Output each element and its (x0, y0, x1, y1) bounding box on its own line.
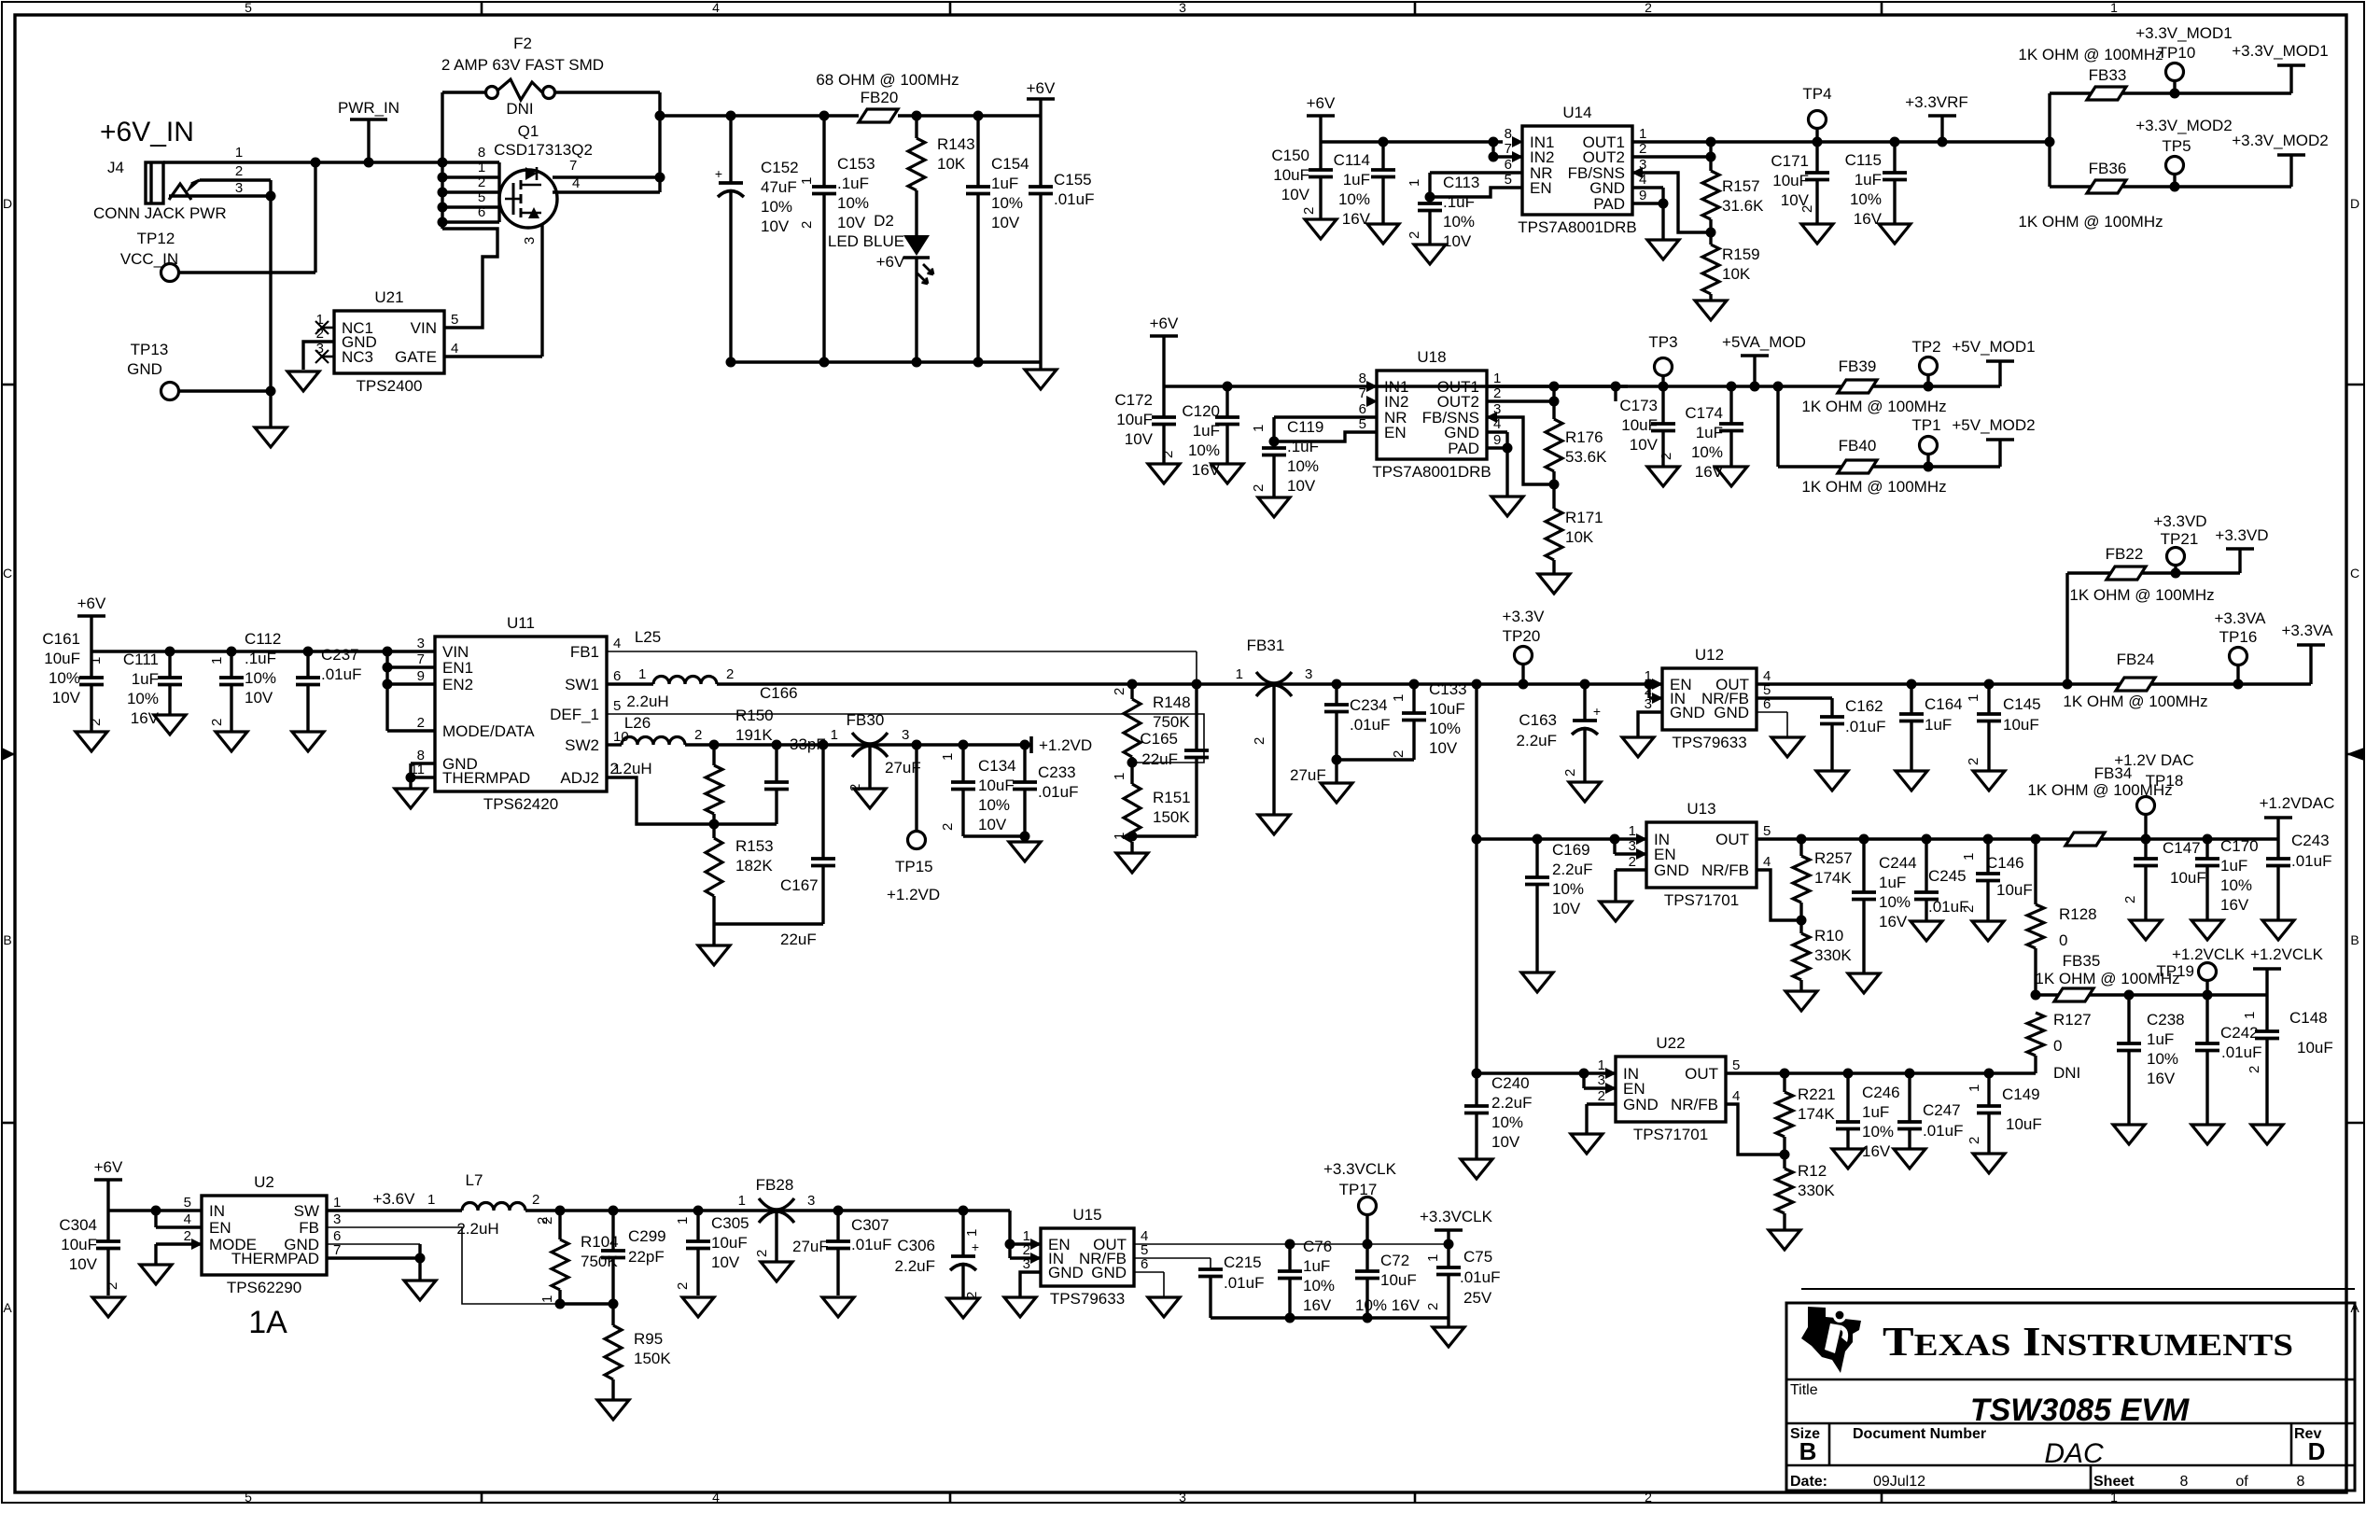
wire +3.3V rail (1274, 682, 1662, 685)
resistor R127 0 DNI (2027, 1013, 2044, 1056)
svg-text:10%: 10% (1491, 1113, 1523, 1131)
wire U12 GND (1638, 712, 1662, 737)
svg-text:2.2uH: 2.2uH (609, 760, 651, 777)
svg-text:C: C (2350, 566, 2359, 581)
svg-text:C111: C111 (123, 651, 159, 668)
wire U18 FB/SNS (1487, 417, 1554, 484)
svg-text:182K: 182K (735, 857, 773, 875)
capacitor C240 2.2uF (1475, 1073, 1477, 1106)
svg-text:SW2: SW2 (565, 736, 599, 754)
capacitor C306 2.2uF (961, 1211, 964, 1256)
svg-text:5: 5 (478, 189, 485, 205)
wire L7 out rail (525, 1209, 1010, 1211)
svg-text:R176: R176 (1565, 428, 1603, 446)
svg-text:1uF: 1uF (1193, 422, 1220, 440)
svg-text:1K OHM @ 100MHz: 1K OHM @ 100MHz (2018, 46, 2163, 63)
capacitor C169 2.2uF (1535, 839, 1538, 877)
svg-text:22uF: 22uF (1141, 750, 1178, 768)
svg-text:FB31: FB31 (1247, 637, 1285, 654)
svg-text:2: 2 (940, 823, 956, 831)
svg-text:27uF: 27uF (1290, 766, 1326, 784)
svg-text:1: 1 (738, 1193, 746, 1209)
svg-text:C148: C148 (2289, 1009, 2328, 1027)
connector J4 (146, 162, 163, 203)
svg-text:1: 1 (539, 1295, 555, 1303)
junction TP12 riser (311, 158, 321, 168)
svg-text:1: 1 (427, 1192, 435, 1208)
svg-text:TP20: TP20 (1503, 627, 1541, 645)
svg-text:33pF: 33pF (790, 735, 826, 753)
svg-text:2: 2 (1629, 854, 1636, 870)
ground U13 (1600, 902, 1631, 921)
ground C162 (1816, 771, 1848, 791)
svg-text:7: 7 (1505, 141, 1512, 157)
svg-text:1uF: 1uF (132, 670, 159, 688)
svg-text:2: 2 (799, 221, 815, 229)
junction TP13 (266, 386, 276, 397)
svg-text:0: 0 (2059, 931, 2067, 949)
power +1.2VD tap (1029, 736, 1033, 753)
wire +6V to U18 (1164, 385, 1628, 387)
resistor R143 10K (915, 116, 917, 138)
svg-text:DNI: DNI (2053, 1064, 2080, 1082)
svg-text:TPS79633: TPS79633 (1672, 734, 1746, 751)
wire U15 GND (1020, 1272, 1041, 1297)
capacitor C215 0.01uF (1198, 1267, 1223, 1271)
svg-text:27uF: 27uF (792, 1238, 829, 1255)
ground C304 (92, 1297, 124, 1317)
svg-text:R128: R128 (2059, 905, 2097, 923)
svg-text:1K OHM @ 100MHz: 1K OHM @ 100MHz (2063, 693, 2207, 710)
ground C120 (1211, 464, 1243, 483)
svg-text:C244: C244 (1879, 854, 1917, 872)
wire U14 FB/SNS (1632, 173, 1711, 232)
svg-text:+6V_IN: +6V_IN (100, 117, 194, 147)
svg-text:C134: C134 (978, 757, 1016, 775)
svg-text:C120: C120 (1182, 402, 1220, 420)
svg-text:5: 5 (245, 1490, 252, 1505)
svg-text:10uF: 10uF (978, 777, 1015, 794)
IC U11 TPS62420 (435, 637, 607, 791)
svg-text:10uF: 10uF (61, 1236, 97, 1253)
wire U14 OUT2 tie (1632, 155, 1711, 158)
svg-text:TP10: TP10 (2158, 44, 2196, 62)
svg-text:1: 1 (1407, 179, 1422, 187)
svg-text:2: 2 (1967, 1137, 1982, 1144)
svg-text:THERMPAD: THERMPAD (231, 1250, 319, 1267)
svg-text:2: 2 (1160, 451, 1176, 458)
svg-text:FB28: FB28 (756, 1176, 794, 1194)
svg-text:C133: C133 (1429, 680, 1467, 698)
svg-text:TP12: TP12 (137, 230, 175, 247)
svg-text:R143: R143 (937, 135, 975, 153)
svg-text:16V: 16V (2220, 896, 2249, 914)
svg-text:2.2uF: 2.2uF (1491, 1094, 1532, 1112)
svg-text:F2: F2 (513, 35, 532, 52)
svg-text:C215: C215 (1224, 1253, 1262, 1271)
svg-text:+3.3VRF: +3.3VRF (1905, 93, 1968, 111)
svg-text:2: 2 (1799, 205, 1815, 213)
svg-text:10%: 10% (978, 796, 1010, 814)
svg-text:7: 7 (1359, 385, 1366, 401)
svg-text:6: 6 (478, 204, 485, 220)
capacitor C72 10uF (1365, 1244, 1368, 1271)
capacitor C152 47uF (729, 116, 732, 183)
svg-text:4: 4 (613, 636, 621, 651)
svg-text:174K: 174K (1798, 1105, 1835, 1123)
svg-text:L25: L25 (635, 628, 661, 646)
svg-text:10uF: 10uF (2297, 1039, 2333, 1057)
svg-text:EN2: EN2 (442, 676, 473, 693)
ground C161 (76, 732, 107, 751)
svg-text:330K: 330K (1798, 1182, 1835, 1199)
svg-text:U14: U14 (1562, 104, 1591, 121)
ground C245 (1911, 921, 1942, 941)
svg-text:10%: 10% (1552, 880, 1584, 898)
svg-text:.01uF: .01uF (321, 665, 361, 683)
svg-text:PAD: PAD (1593, 195, 1625, 213)
svg-text:C166: C166 (760, 684, 798, 702)
svg-text:2: 2 (1425, 1303, 1441, 1310)
svg-text:2: 2 (1562, 769, 1578, 777)
svg-text:C305: C305 (711, 1214, 749, 1232)
ground U12 GND right (1771, 737, 1803, 757)
capacitor C245 0.01uF (1925, 839, 1927, 892)
resistor R150 191K (712, 745, 715, 765)
svg-text:C299: C299 (628, 1227, 666, 1245)
svg-text:2: 2 (1961, 905, 1977, 913)
svg-text:1: 1 (1236, 666, 1243, 682)
svg-text:R12: R12 (1798, 1162, 1827, 1180)
svg-text:C119: C119 (1287, 418, 1323, 436)
svg-text:C163: C163 (1519, 711, 1557, 729)
wire U18 EN (1274, 432, 1377, 441)
resistor R159 10K (1709, 232, 1712, 245)
wire U14 NR to C113 (1430, 171, 1522, 174)
svg-text:GND: GND (1714, 704, 1749, 721)
svg-text:10uF: 10uF (1116, 411, 1153, 428)
svg-text:U11: U11 (507, 614, 535, 632)
svg-text:2: 2 (539, 1217, 555, 1225)
svg-text:10V: 10V (1630, 436, 1659, 454)
svg-text:EN: EN (1384, 424, 1407, 441)
junction Q1 pin7 (655, 173, 665, 183)
svg-text:R221: R221 (1798, 1085, 1836, 1103)
wire U15 OUT rail (1134, 1243, 1449, 1245)
svg-text:VIN: VIN (411, 319, 437, 337)
ground U11 (395, 789, 427, 808)
svg-text:3: 3 (1023, 1256, 1030, 1272)
svg-text:6: 6 (1359, 401, 1366, 417)
ground C146 (1972, 921, 2004, 941)
svg-text:7: 7 (417, 651, 425, 667)
wire U21 GATE (444, 355, 542, 357)
wire U18 GND PAD (1487, 430, 1507, 433)
svg-text:.01uF: .01uF (1350, 716, 1390, 734)
svg-text:+1.2V DAC: +1.2V DAC (2114, 751, 2194, 769)
svg-text:FB1: FB1 (570, 643, 599, 661)
svg-text:3: 3 (417, 636, 425, 651)
svg-text:1: 1 (1425, 1254, 1441, 1262)
wire U12 IN tie (1647, 684, 1650, 698)
frame center arrow left (2, 748, 15, 761)
svg-text:GND: GND (127, 360, 162, 378)
svg-text:SW1: SW1 (565, 676, 599, 693)
svg-text:2: 2 (1251, 484, 1267, 492)
svg-text:2.2uH: 2.2uH (626, 693, 668, 710)
svg-text:1: 1 (1112, 833, 1127, 840)
capacitor C161 10uF (90, 651, 92, 678)
svg-text:1: 1 (88, 657, 104, 665)
svg-text:3: 3 (1305, 666, 1312, 682)
capacitor C76 1uF (1288, 1244, 1291, 1271)
svg-text:10%: 10% (2220, 876, 2252, 894)
ground C234 (1321, 783, 1352, 803)
capacitor C237 0.01uF (306, 651, 309, 678)
svg-text:2.2uF: 2.2uF (1552, 861, 1592, 878)
wire U18 OUT1 rail (1487, 385, 1778, 387)
capacitor C149 10uF (1987, 1073, 1990, 1106)
ground C75 (1433, 1327, 1464, 1347)
capacitor C154 1uF (976, 116, 979, 187)
svg-text:10%: 10% (1287, 457, 1319, 475)
svg-text:DNI: DNI (506, 100, 533, 118)
svg-text:09Jul12: 09Jul12 (1873, 1474, 1925, 1490)
svg-text:5: 5 (184, 1195, 191, 1211)
svg-text:10V: 10V (52, 689, 81, 707)
svg-text:SW: SW (294, 1202, 319, 1220)
wire U14 EN (1430, 188, 1522, 197)
wire DEF_1 (607, 714, 1204, 763)
wire U2 GND THERMPAD (327, 1243, 420, 1245)
svg-text:+3.3V_MOD1: +3.3V_MOD1 (2135, 24, 2232, 42)
svg-text:TP19: TP19 (2156, 962, 2194, 980)
svg-text:1: 1 (675, 1217, 691, 1225)
capacitor C162 0.01uF (1757, 696, 1832, 699)
svg-text:16V: 16V (1303, 1296, 1332, 1314)
svg-text:1: 1 (478, 160, 485, 175)
ground C305 (682, 1297, 714, 1317)
svg-text:+5VA_MOD: +5VA_MOD (1722, 333, 1806, 351)
svg-text:1: 1 (209, 657, 225, 665)
ground C164 (1896, 771, 1927, 791)
ground U22 (1571, 1134, 1603, 1154)
svg-text:1: 1 (1112, 773, 1127, 780)
svg-text:1: 1 (940, 753, 956, 761)
svg-text:MODE/DATA: MODE/DATA (442, 722, 535, 740)
IC U15 TPS79633 (1041, 1228, 1134, 1286)
capacitor C133 10uF (1412, 684, 1415, 713)
ground U15 right (1148, 1297, 1180, 1317)
svg-text:EN1: EN1 (442, 659, 473, 677)
ground C119 (1258, 497, 1290, 517)
svg-text:TPS71701: TPS71701 (1664, 891, 1739, 909)
ground C244 (1848, 973, 1880, 993)
svg-text:L26: L26 (624, 714, 651, 732)
svg-text:GND: GND (1623, 1096, 1659, 1113)
svg-text:2.2uF: 2.2uF (1517, 732, 1557, 749)
svg-text:C149: C149 (2002, 1085, 2040, 1103)
svg-text:10V: 10V (978, 816, 1007, 833)
svg-text:.01uF: .01uF (1054, 190, 1094, 208)
ground U21 (287, 371, 319, 391)
svg-text:+1.2VD: +1.2VD (887, 886, 940, 903)
wire +6V to U2 (108, 1209, 202, 1211)
svg-text:+6V: +6V (1027, 79, 1056, 97)
svg-text:5: 5 (245, 0, 252, 15)
capacitor C243 0.01uF (2276, 839, 2279, 859)
svg-text:IN: IN (209, 1202, 225, 1220)
wire U22 out rail (1726, 1071, 2036, 1074)
title block rule (1801, 1288, 2355, 1290)
capacitor C147 10uF (2144, 839, 2147, 859)
svg-text:TPS7A8001DRB: TPS7A8001DRB (1518, 218, 1637, 236)
svg-text:TPS79633: TPS79633 (1050, 1290, 1125, 1308)
svg-text:TSW3085 EVM: TSW3085 EVM (1970, 1393, 2190, 1428)
svg-text:.01uF: .01uF (851, 1236, 891, 1253)
ground C172 (1148, 464, 1180, 483)
svg-text:TPS2400: TPS2400 (357, 377, 423, 395)
svg-text:+6V: +6V (1307, 94, 1336, 112)
svg-text:5: 5 (613, 698, 621, 714)
capacitor C145 10uF (1987, 684, 1990, 714)
svg-text:2: 2 (675, 1282, 691, 1290)
svg-text:10%: 10% (991, 194, 1023, 212)
svg-text:7: 7 (569, 158, 577, 174)
svg-text:1: 1 (1251, 425, 1267, 432)
svg-text:1K OHM @ 100MHz: 1K OHM @ 100MHz (1801, 478, 1946, 496)
svg-text:C165: C165 (1140, 730, 1178, 748)
capacitor C148 10uF (2265, 995, 2268, 1031)
svg-text:1uF: 1uF (1862, 1103, 1889, 1121)
wire +1.2VDAC rail (1757, 837, 2036, 840)
ground C149 (1973, 1154, 2005, 1173)
svg-text:9: 9 (1639, 188, 1646, 203)
svg-text:C154: C154 (991, 155, 1029, 173)
svg-text:ADJ2: ADJ2 (560, 769, 599, 787)
svg-text:1A: 1A (248, 1305, 287, 1340)
svg-text:+1.2VCLK: +1.2VCLK (2250, 945, 2324, 963)
svg-text:B: B (2350, 932, 2359, 947)
wire J4 pin1 (163, 161, 442, 163)
svg-text:3: 3 (1179, 1490, 1186, 1505)
svg-text:+6V: +6V (77, 595, 106, 612)
svg-text:8: 8 (1505, 126, 1512, 142)
capacitor C247 0.01uF (1908, 1073, 1911, 1122)
svg-text:1: 1 (1639, 126, 1646, 142)
svg-text:TP15: TP15 (895, 858, 933, 875)
svg-text:10uF: 10uF (1772, 172, 1809, 189)
svg-text:10%: 10% (245, 669, 276, 687)
svg-text:.01uF: .01uF (1460, 1268, 1500, 1286)
resistor R10 330K (1799, 920, 1802, 933)
capacitor C307 0.01uF (836, 1211, 839, 1241)
svg-text:+: + (972, 1239, 979, 1254)
svg-text:2: 2 (1598, 1088, 1605, 1104)
svg-text:53.6K: 53.6K (1565, 448, 1607, 466)
wire U21 VIN staircase (442, 229, 497, 328)
svg-text:C242: C242 (2220, 1024, 2259, 1042)
svg-text:NC3: NC3 (342, 348, 373, 366)
svg-text:+6V: +6V (876, 253, 905, 271)
svg-text:2: 2 (1407, 231, 1422, 239)
wire C133 C234 bottoms (1337, 758, 1414, 761)
wire U22 EN tie (1582, 1073, 1585, 1088)
wire U22 GND (1587, 1102, 1616, 1105)
svg-text:1: 1 (1629, 823, 1636, 839)
svg-text:.01uF: .01uF (1923, 1122, 1963, 1140)
svg-text:TP21: TP21 (2161, 530, 2199, 548)
svg-text:8: 8 (1359, 371, 1366, 386)
svg-text:+3.3V_MOD2: +3.3V_MOD2 (2232, 132, 2328, 149)
svg-text:L7: L7 (466, 1171, 483, 1189)
capacitor C146 10uF (1986, 839, 1989, 874)
wire U21 GND (303, 342, 334, 370)
svg-text:9: 9 (417, 668, 425, 684)
wire +6V to U11 (91, 650, 435, 652)
svg-text:U15: U15 (1072, 1206, 1101, 1224)
wire U18 NR to C119 (1274, 415, 1377, 418)
svg-text:10V: 10V (837, 214, 866, 231)
resistor R153 182K (712, 824, 715, 838)
svg-text:2: 2 (1252, 737, 1267, 745)
junction PWR_IN (364, 158, 374, 168)
svg-text:1: 1 (799, 177, 815, 185)
svg-text:+3.3VD: +3.3VD (2215, 526, 2268, 544)
svg-text:10uF: 10uF (1996, 881, 2033, 899)
capacitor C120 1uF (1225, 386, 1228, 417)
svg-text:2: 2 (235, 163, 243, 179)
ground R12 (1769, 1230, 1800, 1250)
wire U15 feed (1008, 1211, 1011, 1258)
svg-text:10V: 10V (69, 1255, 98, 1273)
IC U14 TPS7A8001DRB (1522, 126, 1632, 215)
svg-text:2: 2 (754, 1250, 770, 1257)
svg-text:1: 1 (1967, 1085, 1982, 1092)
svg-text:C234: C234 (1350, 696, 1388, 714)
capacitor C119 0.1uF (1272, 417, 1275, 448)
svg-text:10V: 10V (1429, 739, 1458, 757)
svg-text:C174: C174 (1685, 404, 1723, 422)
svg-text:2: 2 (1301, 207, 1317, 215)
svg-text:C161: C161 (42, 630, 80, 648)
ground C307 (822, 1297, 854, 1317)
svg-text:.01uF: .01uF (1845, 718, 1885, 735)
svg-text:+1.2VCLK: +1.2VCLK (2172, 945, 2246, 963)
svg-text:8: 8 (2180, 1474, 2189, 1490)
wire U22 input branch (1477, 1071, 1616, 1074)
svg-text:+3.3VCLK: +3.3VCLK (1420, 1208, 1493, 1225)
svg-text:C238: C238 (2147, 1011, 2185, 1029)
svg-text:R151: R151 (1153, 789, 1191, 806)
capacitor C150 10uF (1319, 142, 1322, 170)
wire ADJ2 (607, 777, 714, 824)
svg-text:2.2uH: 2.2uH (456, 1220, 498, 1238)
svg-text:Q1: Q1 (518, 122, 539, 140)
capacitor C172 10uF (1162, 386, 1165, 417)
svg-text:R257: R257 (1814, 849, 1853, 867)
capacitor C166 33pF (775, 745, 777, 782)
capacitor C246 1uF (1846, 1073, 1849, 1122)
IC U22 TPS71701 (1616, 1057, 1726, 1122)
svg-text:R148: R148 (1153, 693, 1191, 711)
svg-text:22pF: 22pF (628, 1248, 665, 1266)
svg-text:10uF: 10uF (2170, 869, 2206, 887)
capacitor C163 2.2uF (1583, 684, 1586, 721)
wire Q1 pin bus (441, 162, 443, 229)
svg-text:+: + (1593, 704, 1601, 719)
svg-text:4: 4 (712, 0, 720, 15)
